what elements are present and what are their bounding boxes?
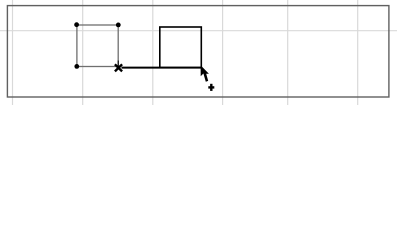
- grid vertical line 5: [287, 0, 289, 105]
- handle dot top-right: [116, 23, 121, 28]
- thick connector line: [122, 67, 202, 69]
- grid horizontal line: [0, 30, 397, 32]
- grid vertical line 1: [12, 0, 14, 105]
- drawn square (black outline): [160, 27, 202, 68]
- plus sign: [208, 84, 214, 91]
- selected square (gray outline): [77, 25, 118, 67]
- handle dot top-left: [74, 22, 79, 27]
- handle dot bottom-left: [74, 64, 79, 69]
- connection X mark: [115, 64, 122, 71]
- grid vertical line 3: [152, 0, 154, 105]
- page border frame: [7, 6, 389, 97]
- grid vertical line 2: [82, 0, 84, 105]
- canvas background: [0, 0, 397, 105]
- line endpoint stub: [117, 61, 119, 67]
- mouse cursor arrow: [201, 65, 209, 82]
- grid vertical line 6: [357, 0, 359, 105]
- grid vertical line 4: [222, 0, 224, 105]
- X center blob: [117, 66, 120, 69]
